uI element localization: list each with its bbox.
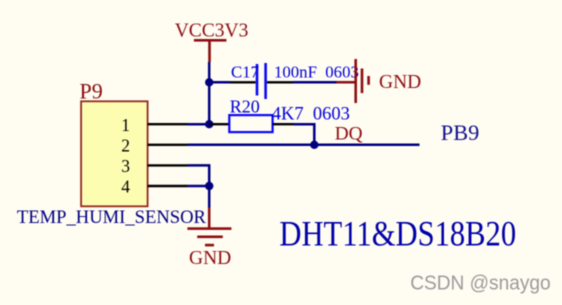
pin 4 [148, 185, 188, 187]
svg-text:3: 3 [121, 156, 130, 176]
svg-text:GND: GND [379, 72, 421, 93]
svg-text:DHT11&DS18B20: DHT11&DS18B20 [279, 214, 516, 254]
wire red GND lead [337, 81, 355, 84]
connector P9 [81, 101, 148, 206]
svg-text:100nF 0603: 100nF 0603 [274, 63, 359, 82]
svg-text:VCC3V3: VCC3V3 [175, 21, 249, 42]
pin 3 [148, 164, 188, 166]
wire R20 right to pin2 net [294, 124, 314, 144]
wire pin1 to junction [188, 123, 210, 126]
svg-text:PB9: PB9 [441, 120, 479, 145]
junction at R20/pin2 [310, 141, 318, 149]
ground symbol bottom [187, 227, 231, 246]
svg-text:1: 1 [121, 115, 130, 135]
svg-text:CSDN @snaygo: CSDN @snaygo [410, 271, 551, 294]
svg-text:DQ: DQ [335, 124, 363, 145]
svg-text:4: 4 [121, 177, 130, 197]
resistor R20 [209, 115, 294, 132]
wire pin4 to junction [188, 185, 210, 188]
wire pin2 to PB9 [188, 144, 420, 147]
wire pin3 down [188, 165, 210, 186]
svg-text:4K7 0603: 4K7 0603 [272, 104, 350, 124]
svg-text:TEMP_HUMI_SENSOR: TEMP_HUMI_SENSOR [17, 207, 207, 228]
junction at pin1/VCC/R20 [205, 120, 213, 128]
wire VCC stem down to pin1 [208, 62, 211, 124]
wire C17 to GND [293, 81, 337, 84]
svg-text:C17: C17 [231, 63, 259, 82]
svg-text:R20: R20 [230, 97, 260, 117]
junction at VCC/C17 [205, 78, 213, 86]
wire red GND stem [208, 208, 211, 228]
power VCC3V3 [194, 39, 227, 62]
wire junction to C17 [209, 81, 230, 84]
wire down to GND [208, 186, 211, 208]
pin 2 [148, 144, 188, 146]
junction at pin3/pin4 [205, 182, 213, 190]
capacitor C17 [230, 63, 293, 99]
svg-text:GND: GND [189, 248, 231, 269]
svg-text:P9: P9 [80, 79, 103, 104]
pin 1 [148, 123, 188, 125]
ground symbol right [354, 59, 370, 103]
svg-text:2: 2 [121, 135, 130, 155]
